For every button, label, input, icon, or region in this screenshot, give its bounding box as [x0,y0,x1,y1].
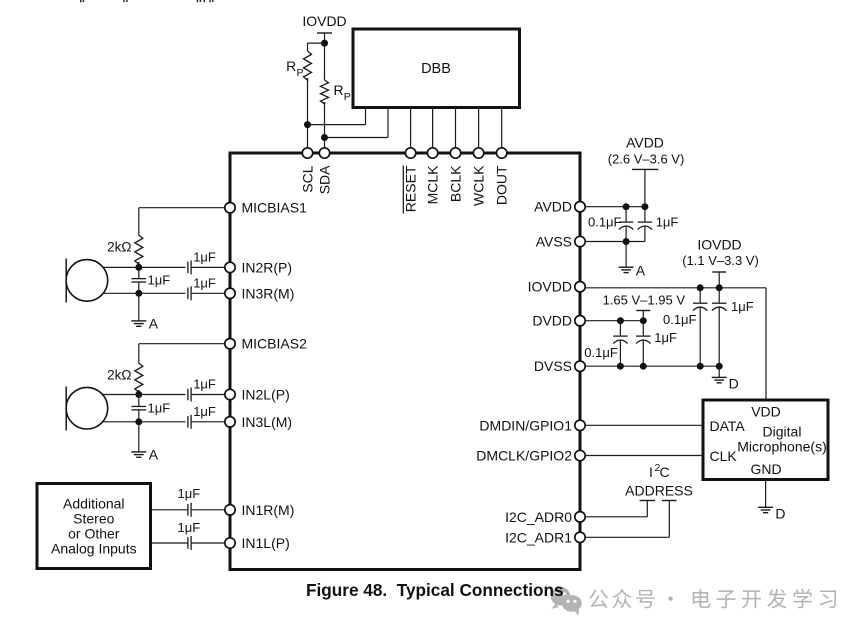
svg-text:Additional: Additional [63,496,125,512]
pin RESET (top) [405,148,415,158]
capacitor C 1uF (IN2L series) [187,389,189,401]
node IOVDD junctions [697,284,704,291]
wire I2C_ADR1 [585,536,669,538]
additional stereo inputs box [37,484,151,569]
pin MICBIAS2 (left) [225,339,235,349]
capacitor C 0.1uF (IOVDD) [699,288,701,303]
svg-text:A: A [149,316,159,332]
node SCL junction [304,121,311,128]
svg-text:0.1μF: 0.1μF [663,312,697,327]
svg-text:IOVDD: IOVDD [302,13,346,29]
pin SCL (top) [302,148,312,158]
svg-text:AVDD: AVDD [534,199,572,215]
pin IN3R(M) (left) [225,288,235,298]
node mic1 bottom junction [135,290,142,297]
codec chip outline [230,153,580,570]
IOVDD power symbol [712,271,726,273]
svg-text:SDA: SDA [317,165,333,194]
pin BCLK (top) [450,148,460,158]
watermark text: gongzhonghao dianzi kaifa xuexi [589,589,836,609]
wire SCL vertical [307,78,309,148]
svg-text:DMDIN/GPIO1: DMDIN/GPIO1 [479,417,572,433]
svg-text:R: R [334,82,344,98]
wire MICBIAS1 to R bias [139,207,225,209]
svg-text:1μF: 1μF [193,250,216,265]
capacitor C 1uF (IN3R series) [187,288,189,300]
svg-text:1μF: 1μF [193,377,216,392]
wire IOVDD to RP1 [308,42,325,44]
svg-text:A: A [149,447,159,463]
pin AVSS (right) [575,236,585,246]
wire IOVDD to digital mic VDD [765,288,767,400]
cropped heading text descenders [80,0,214,2]
svg-text:1μF: 1μF [178,486,201,501]
capacitor C 1uF (AVDD) [644,207,646,222]
pin IN3L(M) (left) [225,417,235,427]
ground A (mic2) [138,422,140,452]
svg-text:DBB: DBB [421,61,451,77]
svg-text:A: A [636,262,646,278]
node AVSS junction [623,238,630,245]
wire DBB to MCLK [432,108,434,148]
electret microphone MIC2 [65,387,67,431]
pin DMCLK/GPIO2 (right) [575,450,585,460]
svg-text:ADDRESS: ADDRESS [625,483,693,499]
wire box to IN1L [152,542,187,544]
svg-text:IN1L(P): IN1L(P) [242,535,290,551]
svg-text:Analog Inputs: Analog Inputs [51,541,137,557]
node mic2 top junction [135,391,142,398]
pin I2C_ADR0 (right) [575,512,585,522]
svg-text:1μF: 1μF [656,215,679,230]
svg-text:Figure 48. Typical Connection: Figure 48. Typical Connections [306,580,564,600]
svg-text:1μF: 1μF [193,404,216,419]
svg-text:0.1μF: 0.1μF [584,345,618,360]
wire I2C_ADR0 [585,516,647,518]
svg-text:AVSS: AVSS [536,234,572,250]
svg-text:IN1R(M): IN1R(M) [242,502,295,518]
watermark icon (chat bubbles) [551,587,582,616]
wire DBB to BCLK [455,108,457,148]
svg-text:MICBIAS2: MICBIAS2 [242,336,308,352]
wire IOVDD [585,287,766,289]
pin DVDD (right) [575,316,585,326]
capacitor C 1uF (mic1 shunt) [138,267,140,278]
resistor R 2k (mic2 bias) [135,363,143,392]
svg-text:D: D [775,505,785,521]
capacitor C 1uF (mic2 shunt) [138,395,140,407]
I2C_ADR1 strap bar [662,500,677,502]
svg-text:1μF: 1μF [731,299,754,314]
wire box to IN1R [152,509,187,511]
svg-text:AVDD: AVDD [626,135,664,151]
svg-text:IOVDD: IOVDD [697,237,741,253]
wire DVSS [585,365,719,367]
svg-text:or Other: or Other [68,526,120,542]
svg-text:Stereo: Stereo [73,511,114,527]
capacitor C 0.1uF (DVDD) [619,321,621,336]
wire AVSS [585,241,645,243]
svg-text:IN3R(M): IN3R(M) [242,285,295,301]
svg-text:RESET: RESET [403,165,419,212]
pin AVDD (right) [575,202,585,212]
AVDD power symbol [632,168,659,170]
wire mic2 to IN3L [87,421,186,423]
DVDD power symbol [636,310,650,312]
node AVDD junctions [623,203,630,210]
pin WCLK (top) [473,148,483,158]
electret microphone MIC1 [65,259,67,303]
svg-text:DVSS: DVSS [534,358,572,374]
svg-text:1μF: 1μF [193,276,216,291]
wire mic2 to IN2L [87,394,186,396]
pin IN1R(M) (left) [225,505,235,515]
pin IN2R(P) (left) [225,262,235,272]
ground D (digital mic) [765,481,767,507]
capacitor C 1uF (IN1R series) [187,504,189,516]
svg-text:C: C [659,464,669,480]
ground A (mic1) [138,293,140,321]
pin IN2L(P) (left) [225,389,235,399]
pin DOUT (top) [497,148,507,158]
wire DBB to WCLK [478,108,480,148]
resistor R 2k (mic1 bias) [135,235,143,264]
pin IN1L(P) (left) [225,538,235,548]
capacitor C 1uF (IN3L series) [187,416,189,428]
svg-text:DOUT: DOUT [494,165,510,205]
svg-text:BCLK: BCLK [448,165,464,202]
wire DMCLK to CLK [585,455,703,457]
wire MICBIAS2 to R bias [139,343,225,345]
svg-text:MICBIAS1: MICBIAS1 [242,200,308,216]
wire DBB to DOUT [501,108,503,148]
pin DMDIN/GPIO1 (right) [575,420,585,430]
svg-text:CLK: CLK [710,448,738,464]
svg-text:I2C_ADR1: I2C_ADR1 [505,529,572,545]
svg-text:GND: GND [750,461,781,477]
pin I2C_ADR1 (right) [575,532,585,542]
svg-text:0.1μF: 0.1μF [588,215,622,230]
svg-text:DMCLK/GPIO2: DMCLK/GPIO2 [476,448,572,464]
resistor RP (SCL pull-up) [307,43,309,51]
svg-text:IN3L(M): IN3L(M) [242,414,293,430]
svg-text:IN2L(P): IN2L(P) [242,387,290,403]
wire SDA vertical [324,102,326,148]
capacitor C 1uF (DVDD) [642,321,644,336]
wire mic1 to IN3R [87,292,186,294]
pin MCLK (top) [427,148,437,158]
pin MICBIAS1 (left) [225,203,235,213]
svg-text:P: P [344,91,351,103]
wire SDA to DBB [325,137,389,139]
node SDA junction [321,134,328,141]
DBB block U2 [353,29,520,108]
svg-text:I: I [649,464,653,480]
RESET overline [402,166,404,214]
digital microphone box [703,400,828,480]
pin IOVDD (right) [575,282,585,292]
node DVDD junctions [617,317,624,324]
svg-text:2kΩ: 2kΩ [107,368,131,383]
svg-text:2kΩ: 2kΩ [107,240,131,255]
wire DVDD [585,320,643,322]
node mic2 bottom junction [135,418,142,425]
capacitor C 1uF (IN1L series) [187,537,189,549]
capacitor C 1uF (IN2R series) [187,262,189,274]
svg-text:I2C_ADR0: I2C_ADR0 [505,509,572,525]
capacitor C 1uF (IOVDD) [718,288,720,303]
svg-text:IOVDD: IOVDD [528,279,572,295]
svg-text:MCLK: MCLK [425,165,441,205]
svg-text:DATA: DATA [710,418,746,434]
svg-text:Digital: Digital [763,423,802,439]
svg-text:1μF: 1μF [654,330,677,345]
svg-text:IN2R(P): IN2R(P) [242,259,293,275]
svg-text:R: R [286,58,296,74]
node mic1 top junction [135,264,142,271]
wire DBB to RESET [410,108,412,148]
pin SDA (top) [319,148,329,158]
svg-text:VDD: VDD [751,403,781,419]
svg-text:Microphone(s): Microphone(s) [737,438,826,454]
svg-text:1μF: 1μF [148,401,171,416]
pin DVSS (right) [575,361,585,371]
ground D (DVSS) [718,366,720,377]
node IOVDD top junction [321,40,328,47]
wire DMDIN to DATA [585,424,703,426]
wire AVDD [585,206,645,208]
svg-text:D: D [729,375,739,391]
svg-text:DVDD: DVDD [532,313,572,329]
svg-text:(1.1 V–3.3 V): (1.1 V–3.3 V) [682,253,759,268]
node DVSS junctions [617,363,624,370]
I2C_ADR0 strap bar [640,500,655,502]
svg-text:1μF: 1μF [148,273,171,288]
svg-text:P: P [297,67,304,79]
wire SCL to DBB [308,124,366,126]
svg-text:1.65 V–1.95 V: 1.65 V–1.95 V [603,293,686,308]
ground A (AVSS) [625,242,627,268]
svg-text:WCLK: WCLK [471,165,487,206]
svg-text:SCL: SCL [300,165,316,192]
resistor RP (SDA pull-up) [324,43,326,80]
svg-text:(2.6 V–3.6 V): (2.6 V–3.6 V) [608,152,685,167]
wire mic1 to IN2R [87,266,186,268]
svg-text:1μF: 1μF [178,520,201,535]
capacitor C 0.1uF (AVDD) [625,207,627,222]
